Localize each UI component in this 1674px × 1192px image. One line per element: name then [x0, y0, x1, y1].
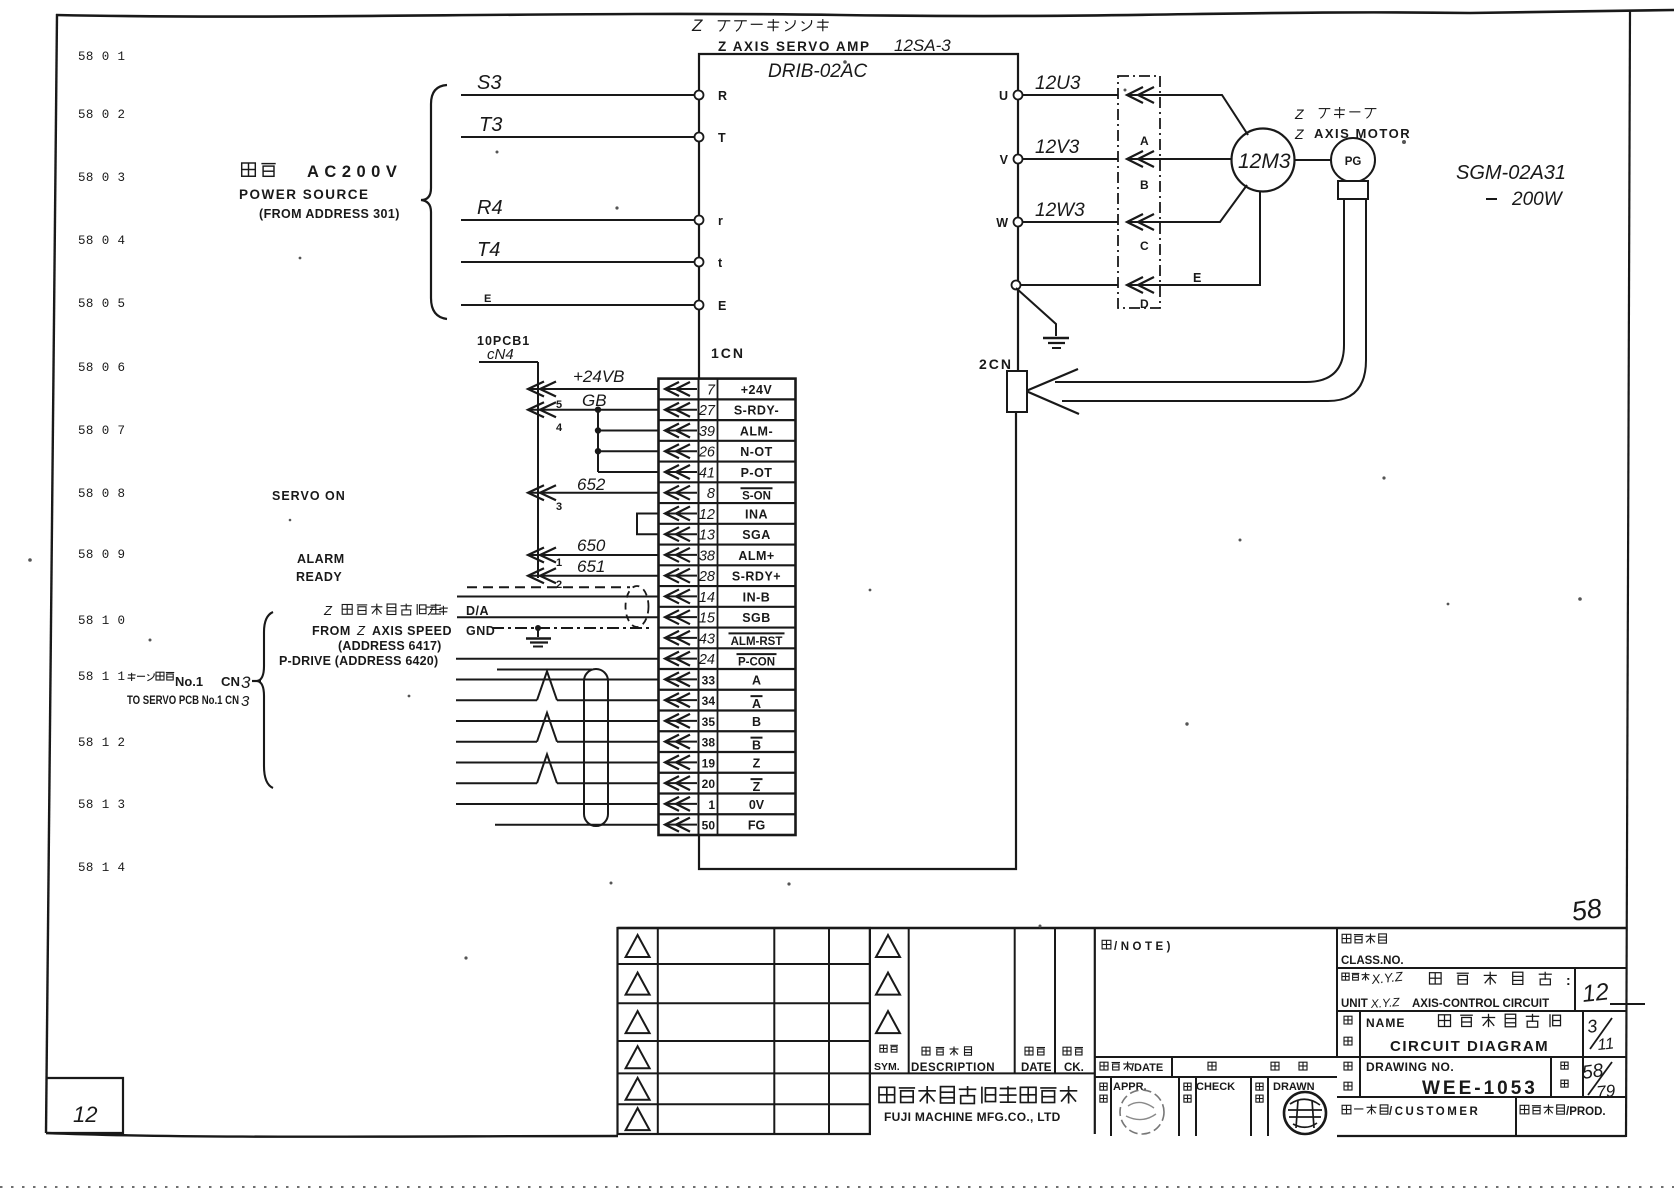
wire jumper pins 12-13: [637, 514, 659, 535]
encoder PG: [1331, 138, 1375, 182]
svg-text:P-CON: P-CON: [738, 657, 775, 669]
pin 41 P-OT row: [665, 465, 679, 479]
arrow into pin C: [1127, 214, 1143, 230]
svg-text:15: 15: [699, 611, 716, 627]
svg-text:Z: Z: [1294, 126, 1304, 142]
pin 35 B row: [665, 714, 679, 728]
arrow into pin A: [1127, 87, 1143, 103]
svg-text:12M3: 12M3: [1238, 150, 1291, 173]
svg-text:34: 34: [702, 694, 716, 708]
svg-text:INA: INA: [745, 507, 768, 521]
svg-text:AC200V: AC200V: [307, 163, 402, 181]
wire A to motor: [1160, 95, 1248, 135]
label APPR: [1100, 1083, 1107, 1090]
label servo pcb No.1 CN3 (JP): [128, 674, 136, 676]
svg-text:E: E: [718, 299, 726, 313]
svg-text:79: 79: [1595, 1081, 1616, 1102]
pin 26 N-OT row: [665, 444, 679, 458]
svg-text:r: r: [718, 214, 723, 228]
wire +24VB: [528, 388, 659, 390]
scan specks (decorative): [843, 60, 847, 64]
border frame left: [46, 14, 57, 1133]
wire shield drain line: [497, 669, 592, 671]
wire 651: [528, 575, 659, 577]
label power source (JP) 電源 AC200V: [242, 163, 256, 176]
pin 38 ALM+ row: [665, 548, 679, 562]
svg-text:AXIS SPEED: AXIS SPEED: [372, 624, 452, 638]
svg-text:E: E: [484, 293, 491, 305]
svg-text:P-DRIVE (ADDRESS 6420): P-DRIVE (ADDRESS 6420): [279, 654, 438, 668]
sign row dividers: [1110, 1077, 1112, 1136]
svg-text:58 1 0: 58 1 0: [78, 614, 125, 628]
brace power source group: [421, 85, 447, 319]
node GND junction: [535, 625, 541, 631]
wire motor to PG: [1295, 159, 1332, 161]
svg-text:U: U: [999, 89, 1008, 103]
svg-text:CK.: CK.: [1064, 1062, 1084, 1074]
arrow into pin D: [1127, 277, 1143, 293]
svg-text:IN-B: IN-B: [743, 590, 771, 604]
pin 7 +24V row: [665, 382, 679, 396]
svg-text:SYM.: SYM.: [874, 1061, 900, 1073]
terminal t: [695, 258, 704, 267]
stamp DRAWN: [1284, 1092, 1326, 1134]
wire CN4 stub: [479, 361, 538, 363]
svg-text:CIRCUIT DIAGRAM: CIRCUIT DIAGRAM: [1390, 1038, 1549, 1055]
header CK: [1063, 1047, 1071, 1055]
svg-text:0V: 0V: [749, 798, 765, 812]
label CHECK: [1184, 1083, 1191, 1090]
revision table right: [869, 928, 871, 1134]
revision triangles left column: [626, 935, 650, 957]
svg-text:Z AXIS SERVO AMP: Z AXIS SERVO AMP: [718, 39, 871, 54]
svg-text:S-RDY+: S-RDY+: [732, 570, 781, 584]
svg-text:(FROM ADDRESS 301): (FROM ADDRESS 301): [259, 207, 400, 221]
wire GND dash-dot: [492, 627, 652, 629]
svg-text:58 1 3: 58 1 3: [78, 798, 125, 812]
wire CN4 vertical bus: [537, 362, 539, 578]
wire D/A to pin 14: [457, 596, 659, 598]
svg-text:2: 2: [556, 579, 562, 591]
wire T4 to servo amp: [461, 261, 699, 263]
svg-text:P-OT: P-OT: [741, 466, 773, 480]
svg-text:E: E: [1193, 271, 1201, 285]
wire B to motor: [1160, 158, 1232, 160]
svg-text:39: 39: [699, 424, 715, 440]
svg-text:GND: GND: [466, 624, 495, 638]
svg-text:1: 1: [556, 557, 562, 569]
svg-text:58 0 2: 58 0 2: [78, 108, 125, 122]
sheet number box 12: [46, 1078, 123, 1133]
svg-text:/PROD.: /PROD.: [1566, 1106, 1606, 1118]
svg-text:FUJI MACHINE MFG.CO., LTD: FUJI MACHINE MFG.CO., LTD: [884, 1110, 1061, 1124]
svg-text:Z: Z: [753, 756, 761, 770]
svg-text:35: 35: [702, 715, 716, 729]
label DRAWN: [1256, 1083, 1263, 1090]
arrow into pin B: [1127, 151, 1143, 167]
svg-text:12U3: 12U3: [1035, 73, 1081, 94]
svg-text:58 0 5: 58 0 5: [78, 297, 125, 311]
svg-text:ALM-RST: ALM-RST: [731, 636, 783, 648]
svg-text:WEE-1053: WEE-1053: [1422, 1078, 1538, 1099]
stamp APPR: [1120, 1090, 1164, 1134]
svg-text:12V3: 12V3: [1035, 137, 1080, 158]
svg-text:7: 7: [707, 382, 716, 398]
pin 39 ALM- row: [665, 423, 679, 437]
svg-text:58: 58: [1581, 1060, 1605, 1084]
svg-text:38: 38: [699, 548, 715, 564]
svg-text:3: 3: [556, 501, 562, 513]
wire E to servo amp: [461, 304, 699, 306]
svg-text:/NOTE): /NOTE): [1114, 941, 1174, 953]
terminal T: [695, 133, 704, 142]
svg-text:651: 651: [577, 557, 605, 576]
wire S3 to servo amp: [461, 94, 699, 96]
pin 12 INA row: [665, 506, 679, 520]
wire E from motor bottom: [1160, 191, 1260, 285]
svg-text:58 0 6: 58 0 6: [78, 361, 125, 375]
svg-text:A: A: [1140, 134, 1149, 148]
svg-text:S3: S3: [477, 72, 501, 94]
svg-text:+24VB: +24VB: [573, 367, 625, 386]
wire R4 to servo amp: [461, 219, 699, 221]
svg-text:12: 12: [73, 1102, 97, 1127]
ground (motor frame): [1016, 288, 1056, 336]
svg-text:38: 38: [702, 736, 716, 750]
svg-text:20: 20: [702, 777, 716, 791]
svg-text:ALM-: ALM-: [740, 424, 773, 438]
svg-text:5: 5: [556, 399, 562, 411]
pin 8 S-ON row: [665, 486, 679, 500]
svg-text:13: 13: [699, 528, 715, 544]
svg-text:APPR.: APPR.: [1113, 1081, 1147, 1093]
svg-text:Z: Z: [691, 16, 703, 35]
border frame top: [56, 10, 1674, 17]
svg-text:DRAWING NO.: DRAWING NO.: [1366, 1060, 1454, 1074]
svg-text:B: B: [752, 715, 761, 729]
svg-text:T4: T4: [477, 239, 500, 261]
wire encoder cable left line: [1055, 199, 1344, 382]
svg-text:24: 24: [698, 652, 715, 668]
unit row: [1337, 1010, 1626, 1012]
header DESCRIPTION: [922, 1047, 930, 1055]
svg-text:B: B: [752, 739, 761, 753]
terminal R: [695, 91, 704, 100]
scan artifact dotted bottom edge: [0, 1186, 1674, 1188]
pin 38 B row: [665, 735, 679, 749]
svg-text:B: B: [1140, 178, 1149, 192]
svg-text:D: D: [1140, 297, 1149, 311]
svg-text:(ADDRESS 6417): (ADDRESS 6417): [338, 639, 442, 653]
pin 19 Z row: [665, 755, 679, 769]
svg-text:X.Y.Z: X.Y.Z: [1370, 969, 1405, 987]
svg-text:A: A: [752, 673, 761, 687]
wire P-DRIVE to pin 24: [456, 658, 659, 660]
svg-text:3: 3: [1586, 1016, 1599, 1037]
wire B pin35: [456, 720, 659, 722]
terminal E: [695, 301, 704, 310]
svg-text:2CN: 2CN: [979, 356, 1013, 372]
svg-text:4: 4: [556, 422, 563, 434]
svg-text:DESCRIPTION: DESCRIPTION: [911, 1062, 995, 1074]
svg-text:/CUSTOMER: /CUSTOMER: [1389, 1106, 1480, 1118]
header SYM: [880, 1045, 887, 1052]
svg-text:19: 19: [702, 756, 716, 770]
svg-text:GB: GB: [582, 391, 607, 410]
svg-text:DATE: DATE: [1021, 1062, 1052, 1074]
name row: [1337, 1056, 1626, 1058]
svg-text:SGA: SGA: [742, 528, 771, 542]
svg-text:PG: PG: [1345, 156, 1362, 168]
svg-text:READY: READY: [296, 570, 342, 584]
company name Fuji Machine (JP): [879, 1087, 895, 1102]
svg-text:N-OT: N-OT: [740, 445, 773, 459]
svg-text:NAME: NAME: [1366, 1016, 1405, 1030]
svg-text:58 0 8: 58 0 8: [78, 487, 125, 501]
wire 12V3: [1022, 158, 1118, 160]
svg-text:12W3: 12W3: [1035, 200, 1085, 221]
svg-text:FROM: FROM: [312, 624, 351, 638]
pin 28 S-RDY+ row: [665, 569, 679, 583]
pin 20 Z row: [665, 776, 679, 790]
wire /A pin34 (twisted pair): [456, 699, 537, 701]
svg-text:AXIS-CONTROL CIRCUIT: AXIS-CONTROL CIRCUIT: [1412, 998, 1549, 1010]
svg-text:S-ON: S-ON: [742, 491, 771, 503]
shield oval encoder cable: [584, 669, 608, 826]
label 200W: [1486, 198, 1497, 200]
svg-text:X.Y.Z: X.Y.Z: [1369, 995, 1400, 1011]
drawing no row: [1337, 1096, 1626, 1098]
svg-text:12: 12: [1581, 978, 1610, 1008]
svg-text:ALARM: ALARM: [297, 552, 345, 566]
pin 15 SGB row: [665, 610, 679, 624]
wire GB to pin 39: [595, 427, 601, 433]
svg-text:SGM-02A31: SGM-02A31: [1456, 162, 1566, 184]
title block top edge: [618, 927, 1627, 929]
svg-text:11: 11: [1597, 1035, 1615, 1054]
svg-text:12SA-3: 12SA-3: [894, 36, 951, 55]
svg-text:+24V: +24V: [741, 383, 773, 397]
motor 12M3: [1232, 129, 1295, 192]
terminal E2 (amp ground): [1012, 281, 1021, 290]
wire T3 to servo amp: [461, 136, 699, 138]
wire /Z pin20 (twisted pair): [456, 782, 537, 784]
ground GND: [537, 628, 539, 637]
svg-text:200W: 200W: [1511, 189, 1564, 210]
svg-text:14: 14: [699, 590, 715, 606]
svg-text:t: t: [718, 256, 723, 270]
svg-text:3: 3: [241, 693, 250, 710]
svg-text:C: C: [1140, 239, 1149, 253]
pin 1 0V row: [665, 797, 679, 811]
node GB junction: [595, 407, 601, 413]
note box: [1336, 928, 1338, 1057]
svg-text:652: 652: [577, 475, 606, 494]
svg-text:58 1 1: 58 1 1: [78, 670, 125, 684]
svg-text:58 0 1: 58 0 1: [78, 50, 125, 64]
wire encoder cable right line: [1062, 199, 1366, 401]
revision table left: [618, 928, 870, 1134]
connector CN motor (dash-dot box): [1118, 76, 1160, 308]
svg-text:CLASS.NO.: CLASS.NO.: [1341, 955, 1404, 967]
svg-text:S-RDY-: S-RDY-: [734, 404, 779, 418]
svg-text:SERVO ON: SERVO ON: [272, 489, 346, 503]
wire C to motor: [1160, 185, 1247, 222]
wire A pin33: [456, 679, 659, 681]
svg-text:58 1 4: 58 1 4: [78, 861, 125, 875]
svg-text:58 0 7: 58 0 7: [78, 424, 125, 438]
svg-text:1: 1: [708, 798, 715, 812]
svg-text:58: 58: [1570, 893, 1604, 927]
svg-text:28: 28: [698, 569, 715, 585]
class no box: [1337, 967, 1626, 969]
svg-text:58 0 4: 58 0 4: [78, 234, 125, 248]
svg-text:3: 3: [241, 673, 251, 692]
svg-text:Z: Z: [323, 603, 333, 618]
pin 33 A row: [665, 672, 679, 686]
amp box edge through 1CN table: [698, 379, 700, 835]
wire 0V pin1: [456, 803, 659, 805]
svg-text:SGB: SGB: [742, 611, 771, 625]
svg-text:58 0 9: 58 0 9: [78, 548, 125, 562]
svg-text:R: R: [718, 89, 727, 103]
svg-text:41: 41: [699, 465, 715, 481]
PG base box: [1338, 181, 1368, 199]
svg-text:Z: Z: [753, 780, 761, 794]
pin 34 A row: [665, 693, 679, 707]
svg-text:58 1 2: 58 1 2: [78, 736, 125, 750]
wire /B pin36 (twisted pair): [456, 741, 537, 743]
wire to pin 15 SGB: [457, 616, 659, 618]
svg-text:FG: FG: [748, 819, 765, 833]
wire shield dashed top: [467, 586, 630, 588]
svg-text:T: T: [718, 131, 726, 145]
servo amplifier U1 box DRIB-02AC: [699, 54, 1018, 379]
svg-text:W: W: [996, 216, 1008, 230]
wire GB: [528, 409, 659, 411]
pin 13 SGA row: [665, 527, 679, 541]
svg-text::: :: [1566, 972, 1571, 988]
svg-text:D/A: D/A: [466, 604, 489, 618]
label NOTE: [1102, 940, 1111, 949]
svg-text:8: 8: [707, 486, 715, 502]
svg-text:58 0 3: 58 0 3: [78, 171, 125, 185]
brace CN3 group: [257, 612, 273, 788]
connector 1CN table frame: [659, 379, 796, 835]
wire FG pin50: [495, 824, 659, 826]
svg-text:Z: Z: [1294, 106, 1304, 122]
connector 2CN: [1007, 371, 1027, 412]
svg-text:AXIS MOTOR: AXIS MOTOR: [1314, 126, 1411, 141]
terminal r: [695, 216, 704, 225]
svg-text:A: A: [752, 697, 761, 711]
arrow barbs into 2CN: [1026, 369, 1079, 414]
svg-text:50: 50: [702, 819, 716, 833]
wire GB to pin 26: [595, 448, 601, 454]
svg-text:33: 33: [702, 673, 716, 687]
svg-text:UNIT: UNIT: [1341, 998, 1368, 1010]
svg-text:1CN: 1CN: [711, 345, 745, 361]
date row: [1095, 1076, 1337, 1078]
svg-text:ALM+: ALM+: [738, 549, 774, 563]
svg-text:650: 650: [577, 536, 606, 555]
svg-text:POWER SOURCE: POWER SOURCE: [239, 187, 370, 202]
svg-text:12: 12: [699, 507, 715, 523]
wire 650: [528, 554, 659, 556]
pin 24 P-CON row: [665, 652, 679, 666]
wire 12W3: [1022, 221, 1118, 223]
svg-text:No.1: No.1: [175, 674, 203, 689]
svg-text:CHECK: CHECK: [1196, 1081, 1235, 1093]
svg-text:/DATE: /DATE: [1131, 1062, 1163, 1074]
pin 14 IN-B row: [665, 589, 679, 603]
svg-text:CN: CN: [221, 674, 240, 689]
svg-text:43: 43: [699, 631, 715, 647]
wire E motor ground: [1020, 284, 1118, 286]
svg-text:T3: T3: [479, 114, 502, 136]
pin 27 S-RDY- row: [665, 403, 679, 417]
svg-text:R4: R4: [477, 197, 503, 219]
wire GB to pin 41: [598, 471, 659, 473]
header DATE: [1025, 1047, 1033, 1055]
svg-text:27: 27: [698, 403, 716, 419]
wire 652: [528, 492, 659, 494]
svg-text:TO SERVO PCB No.1 CN: TO SERVO PCB No.1 CN: [127, 695, 239, 707]
pin 43 ALM-RST row: [665, 631, 679, 645]
svg-text:DRIB-02AC: DRIB-02AC: [768, 61, 868, 82]
svg-text:Z: Z: [356, 623, 366, 638]
svg-text:26: 26: [698, 445, 716, 461]
revision triangles second column: [876, 935, 900, 957]
svg-text:cN4: cN4: [487, 346, 514, 363]
customer row: [1515, 1097, 1517, 1136]
border frame bottom: [46, 1133, 618, 1137]
pin 50 FG row: [665, 818, 679, 832]
shield oval D/A pair: [626, 586, 649, 627]
wire 12U3: [1022, 94, 1118, 96]
svg-text:V: V: [1000, 153, 1009, 167]
wire Z pin19: [456, 762, 659, 764]
border frame right: [1626, 11, 1630, 1137]
